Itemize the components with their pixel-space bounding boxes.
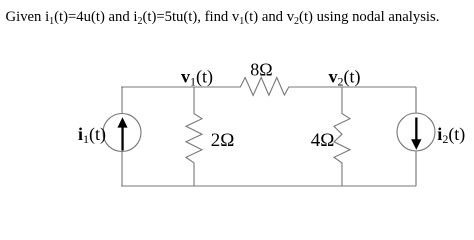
svg-text:v1(t): v1(t) xyxy=(181,66,213,88)
svg-text:8Ω: 8Ω xyxy=(250,60,272,80)
svg-text:4Ω: 4Ω xyxy=(311,130,335,151)
svg-text:i1(t): i1(t) xyxy=(78,124,106,146)
svg-text:v2(t): v2(t) xyxy=(329,66,361,88)
svg-text:i2(t): i2(t) xyxy=(437,124,465,146)
svg-text:2Ω: 2Ω xyxy=(211,130,235,151)
